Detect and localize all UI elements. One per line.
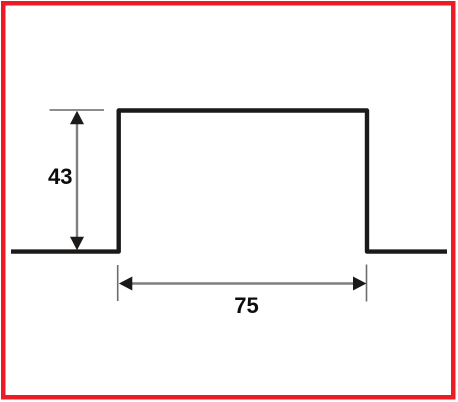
- svg-text:75: 75: [234, 293, 258, 318]
- svg-text:43: 43: [48, 164, 72, 189]
